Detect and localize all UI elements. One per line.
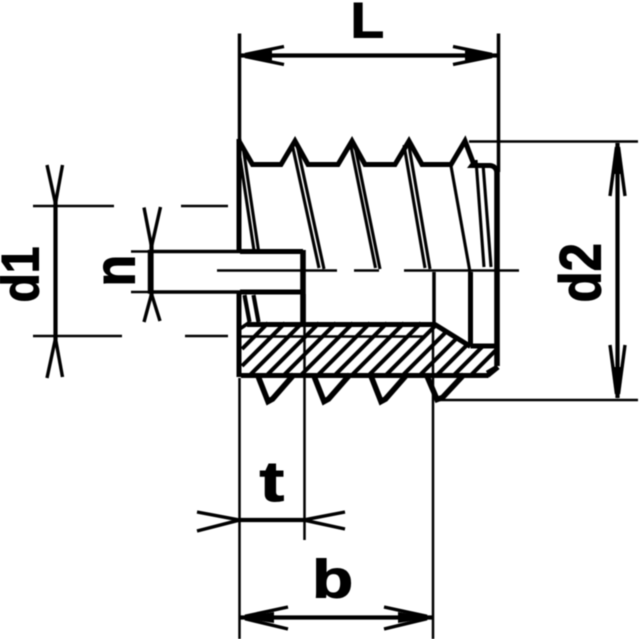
bottom tooth 4 xyxy=(427,375,464,400)
slot helix lines below xyxy=(245,295,259,322)
body right edge xyxy=(494,170,500,366)
bottom tooth 1 xyxy=(258,375,294,402)
extension line t right xyxy=(303,294,306,540)
external thread top profile xyxy=(239,141,497,173)
svg-text:b: b xyxy=(312,549,353,609)
extension line L left xyxy=(238,34,242,142)
thread helix lines tooth4 xyxy=(404,145,430,269)
thread helix lines tooth3 xyxy=(351,144,381,269)
label L xyxy=(351,0,385,49)
extension line L right xyxy=(497,34,501,173)
root line bottom xyxy=(241,373,489,378)
bottom right chamfer xyxy=(487,367,499,376)
body left edge xyxy=(237,139,242,377)
extension line d2 top xyxy=(469,140,638,143)
dimension line L xyxy=(240,47,497,65)
bottom tooth 2 xyxy=(314,375,350,402)
extension line b left xyxy=(238,378,241,639)
thread helix lines tooth1 xyxy=(239,147,259,251)
extension line n top xyxy=(131,250,149,253)
bottom tooth 3 xyxy=(371,375,407,402)
slot xyxy=(148,250,303,294)
thread helix lines tooth5 and head xyxy=(451,160,491,272)
counterbore line xyxy=(471,344,496,349)
label b xyxy=(312,549,353,609)
centre line xyxy=(217,269,519,272)
extension line d1 bottom xyxy=(33,335,228,338)
svg-text:L: L xyxy=(351,0,385,49)
svg-text:d1: d1 xyxy=(0,246,50,302)
extension line d2 bottom xyxy=(437,399,638,402)
extension line n bottom xyxy=(131,291,149,294)
dimension line b xyxy=(240,607,432,629)
extension line b right xyxy=(432,322,435,639)
dimension line d2 xyxy=(610,142,625,399)
slot end wall xyxy=(300,250,306,324)
bore wall (hatch top edge) xyxy=(247,322,434,327)
hatching xyxy=(242,323,496,375)
dimension line t with tick arrows xyxy=(197,512,345,531)
svg-text:d2: d2 xyxy=(547,243,613,303)
svg-text:t: t xyxy=(260,450,285,514)
svg-text:n: n xyxy=(83,255,147,287)
dimension line d1 with tick arrows xyxy=(47,165,63,378)
bore end wall xyxy=(432,272,436,322)
bore chamfer left xyxy=(238,323,249,331)
bore chamfer right xyxy=(433,323,471,347)
dimension line n with tick arrows xyxy=(144,207,161,322)
extension line d1 top xyxy=(33,205,228,208)
internal thread line xyxy=(240,335,426,338)
label t xyxy=(260,450,285,514)
head inner wall xyxy=(468,272,473,345)
thread helix lines tooth2 xyxy=(293,146,325,269)
